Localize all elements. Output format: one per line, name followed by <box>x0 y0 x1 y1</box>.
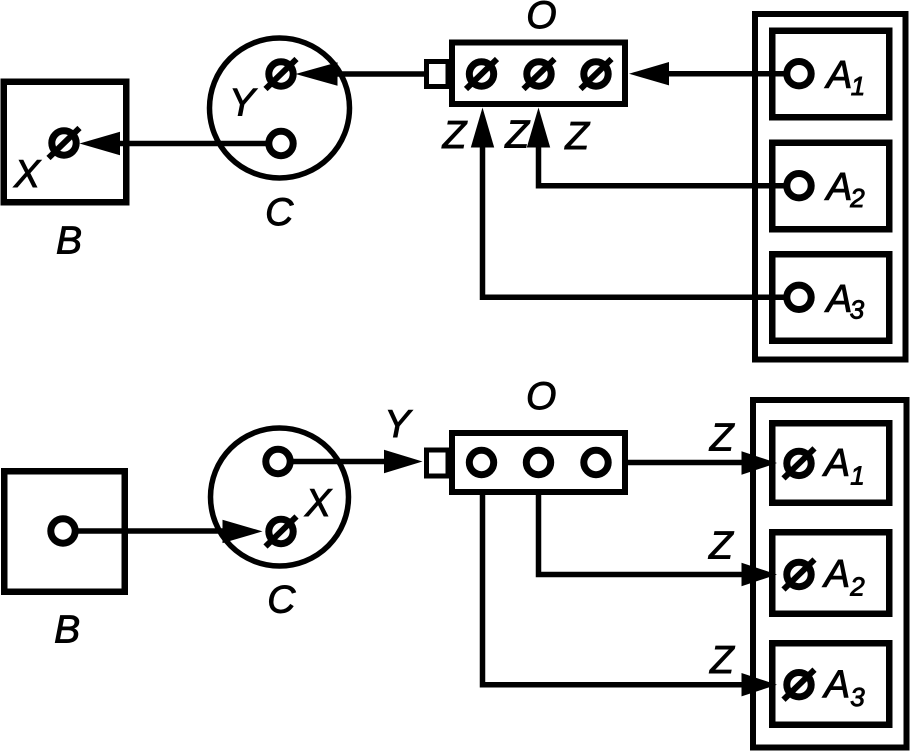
port 1 in O (bottom) <box>469 450 493 474</box>
wire B to C (bottom) <box>63 520 263 543</box>
svg-text:1: 1 <box>851 71 865 101</box>
svg-text:Z: Z <box>564 115 590 158</box>
port 2 in O (top, slashed) <box>524 59 555 89</box>
circle C (top) <box>210 38 350 178</box>
label A1 (bottom) <box>822 442 865 490</box>
port in B (bottom) <box>51 519 75 543</box>
box B (top) <box>4 82 127 203</box>
svg-text:B: B <box>56 220 82 263</box>
svg-text:Z: Z <box>504 114 530 157</box>
svg-text:A: A <box>824 54 852 97</box>
port in A2 (top) <box>787 174 811 198</box>
port in A1 (top) <box>787 61 811 85</box>
box A2 (top) <box>772 143 889 230</box>
port in C lower (top) <box>269 131 293 155</box>
svg-text:B: B <box>54 608 80 651</box>
tab on O box (bottom) <box>427 450 449 476</box>
container of A boxes (bottom) <box>753 400 907 748</box>
svg-text:O: O <box>526 375 556 418</box>
svg-text:A: A <box>824 166 852 209</box>
svg-text:C: C <box>267 579 296 622</box>
port 3 in O (bottom) <box>584 450 608 474</box>
wire O to A1 (bottom) <box>628 451 777 474</box>
wire C to B (top) <box>80 132 282 155</box>
port in A2 (bottom, slashed) <box>784 560 815 590</box>
svg-text:C: C <box>265 191 294 234</box>
label A1 (top) <box>824 54 865 101</box>
svg-text:3: 3 <box>850 682 865 712</box>
svg-text:3: 3 <box>850 294 865 324</box>
svg-text:A: A <box>822 553 850 596</box>
wire A3 to O (top) <box>471 108 799 298</box>
svg-text:A: A <box>824 278 852 321</box>
svg-text:A: A <box>822 664 850 707</box>
svg-text:Y: Y <box>229 81 258 124</box>
svg-text:O: O <box>526 0 556 37</box>
box A3 (top) <box>772 254 889 341</box>
svg-text:Z: Z <box>709 416 735 459</box>
port 2 in O (bottom) <box>526 450 550 474</box>
circle C (bottom) <box>211 428 349 566</box>
label A3 (bottom) <box>822 664 865 712</box>
port Y in C (top, slashed) <box>266 59 297 89</box>
label A3 (top) <box>824 278 864 324</box>
box O (top) <box>452 43 625 105</box>
box B (bottom) <box>4 471 125 592</box>
svg-text:X: X <box>13 153 42 196</box>
port 1 in O (top, slashed) <box>466 59 497 89</box>
wire A1 to O (top) <box>629 62 799 85</box>
wire A2 to O (top) <box>527 108 799 186</box>
label A2 (top) <box>824 166 865 213</box>
wire C to O (bottom) <box>278 450 423 473</box>
svg-text:2: 2 <box>849 183 865 213</box>
svg-text:1: 1 <box>850 460 864 490</box>
port in A3 (top) <box>787 285 811 309</box>
svg-text:A: A <box>822 442 850 485</box>
svg-text:Z: Z <box>709 639 735 682</box>
label A2 (bottom) <box>822 553 865 601</box>
port in C upper (bottom) <box>266 449 290 473</box>
wire O to C (top) <box>296 62 429 85</box>
wire O to A3 (bottom) <box>483 492 778 696</box>
port X in C (bottom, slashed) <box>266 517 297 547</box>
svg-text:2: 2 <box>849 571 865 601</box>
wire O to A2 (bottom) <box>539 492 778 586</box>
box O (bottom) <box>452 433 625 492</box>
box A3 (bottom) <box>772 643 889 725</box>
box A1 (bottom) <box>772 423 889 503</box>
svg-text:X: X <box>304 482 333 525</box>
port X in B (top, slashed) <box>49 128 80 158</box>
box A1 (top) <box>772 31 889 118</box>
port in A1 (bottom, slashed) <box>784 448 815 478</box>
port 3 in O (top, slashed) <box>581 59 612 89</box>
box A2 (bottom) <box>772 532 889 614</box>
container of A boxes (top) <box>755 14 906 360</box>
svg-text:Y: Y <box>384 403 413 446</box>
port in A3 (bottom, slashed) <box>784 670 815 700</box>
svg-text:Z: Z <box>442 114 468 157</box>
svg-text:Z: Z <box>708 525 734 568</box>
tab on O box (top) <box>427 62 449 87</box>
